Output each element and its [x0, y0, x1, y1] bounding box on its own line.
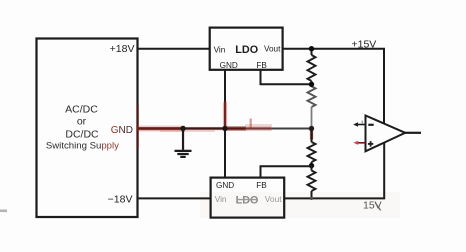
svg-text:−18V: −18V	[108, 193, 133, 205]
op-amp U3	[366, 116, 406, 152]
resistor R2 (top divider lower, faded)	[308, 86, 316, 127]
red watermark artifacts on GND rail	[136, 101, 314, 150]
svg-text:AC/DC: AC/DC	[65, 104, 98, 116]
resistor R4 (bottom divider lower)	[308, 166, 316, 199]
wire: U1 GND pin down through GND rail to U2 GND pin	[224, 70, 226, 178]
resistor R3 (bottom divider upper)	[308, 142, 316, 166]
node: junction rail / divider chain	[309, 126, 314, 131]
svg-text:15V: 15V	[363, 200, 382, 212]
wire: divider tap to U2 FB pin	[261, 166, 312, 177]
wire: op-amp output	[405, 132, 421, 134]
ground symbol	[175, 129, 192, 157]
arrow: non-inverting input (red artifact)	[353, 141, 365, 145]
supply box: AC/DC or DC/DC switching supply	[37, 39, 138, 218]
svg-text:GND: GND	[216, 181, 234, 190]
svg-text:FB: FB	[256, 181, 267, 190]
svg-text:GND: GND	[111, 125, 133, 136]
svg-text:FB: FB	[256, 61, 267, 70]
wire -15V rail: U2 Vout right then up to op-amp V-	[284, 143, 384, 199]
node: junction R4 / -15V rail	[310, 197, 313, 200]
LDO U1 (positive regulator)	[210, 28, 283, 71]
svg-text:or: or	[77, 116, 87, 128]
node: junction U1 Vout / R1	[309, 46, 314, 51]
svg-text:Vin: Vin	[215, 195, 227, 204]
resistor R1 (top divider upper)	[308, 49, 316, 85]
svg-text:+15V: +15V	[352, 39, 377, 51]
wire: U1 FB pin to divider tap	[261, 70, 312, 85]
wire GND rail	[138, 127, 312, 129]
svg-text:DC/DC: DC/DC	[65, 129, 99, 141]
svg-text:Vin: Vin	[214, 45, 226, 54]
node: junction ground stem on rail	[180, 126, 185, 131]
svg-text:LDO: LDO	[236, 194, 259, 206]
arrow: inverting input	[353, 121, 365, 127]
wire +15V rail: U1 Vout right then down to op-amp V+	[283, 49, 384, 124]
wire -18V: supply to U2 Vin	[138, 197, 211, 199]
svg-text:GND: GND	[220, 61, 238, 70]
node: junction U1/U2 GND line on rail	[222, 126, 227, 131]
svg-text:LDO: LDO	[235, 44, 258, 56]
svg-text:+18V: +18V	[110, 43, 135, 55]
wire: rail down to R3	[311, 129, 313, 143]
LDO U2 (negative regulator, flipped)	[211, 178, 285, 218]
wire +18V: supply to U1 Vin	[138, 48, 211, 50]
node: junction FB tap R3/R4	[309, 163, 314, 168]
svg-text:Switching Supply: Switching Supply	[46, 140, 119, 151]
node: junction FB tap R1/R2	[309, 82, 314, 87]
svg-text:Vout: Vout	[265, 194, 282, 204]
svg-text:Vout: Vout	[264, 45, 281, 54]
node 15V label (faded)	[363, 200, 382, 212]
